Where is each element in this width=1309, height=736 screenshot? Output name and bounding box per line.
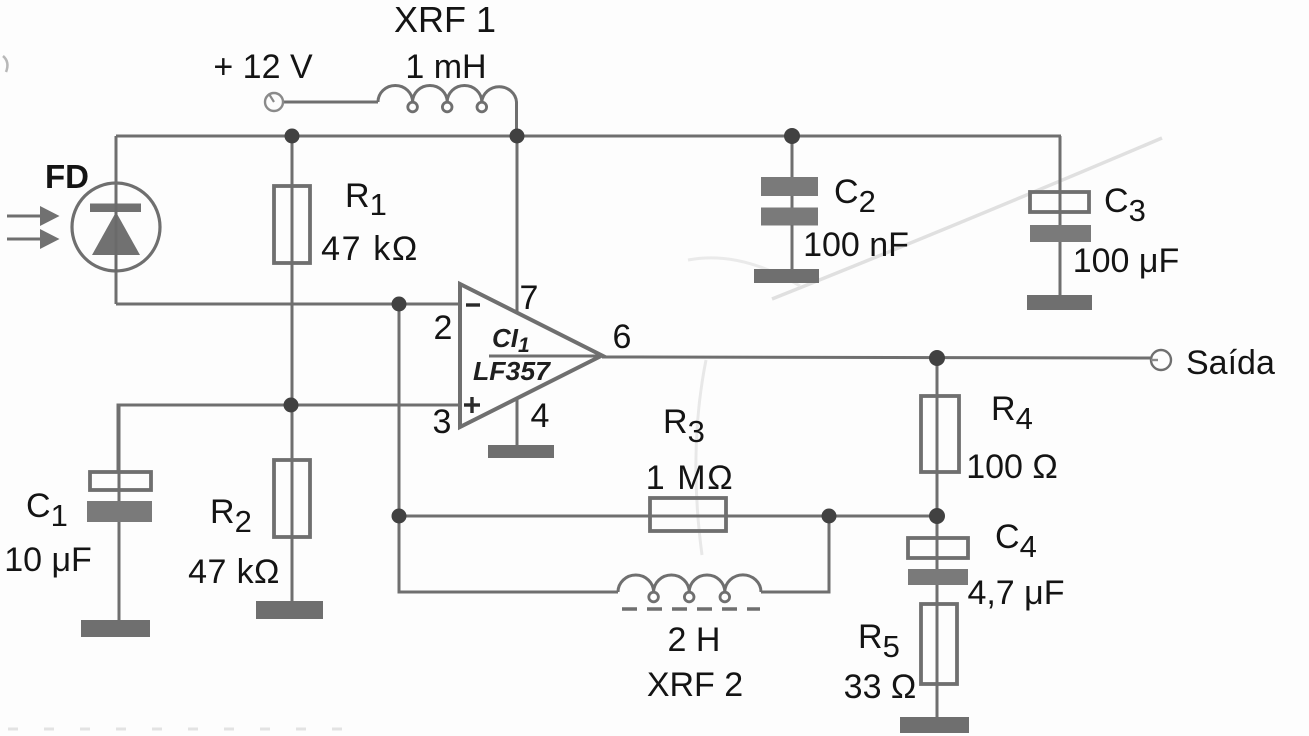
svg-text:100 μF: 100 μF [1073,242,1180,280]
capacitor C1 [87,472,152,522]
photodiode FD [72,183,160,272]
capacitor C4 [908,538,968,585]
svg-text:6: 6 [613,318,632,356]
svg-text:33 Ω: 33 Ω [844,668,917,706]
wire output [602,357,1151,358]
wire C2 branch [791,136,794,270]
svg-text:4,7 μF: 4,7 μF [967,574,1064,612]
ground C3 [1027,295,1092,310]
wire C1 to ground [118,405,121,622]
wire pin 4 [516,398,519,447]
wire non-inverting input [118,405,462,471]
wire R1-R2 chain vertical [291,136,294,601]
core dashed line XRF2 [622,607,760,610]
terminal Saída [1151,350,1171,370]
ground R5 [900,717,969,733]
ground C2 [754,269,819,283]
wire feedback [399,515,937,518]
node bus-C2 [784,128,800,144]
ground op-amp pin 4 [488,445,554,458]
op-amp U1 [460,284,602,427]
node output-R4 [929,350,945,366]
wire +12V to inductor [283,101,378,104]
wire left vertical through photodiode [115,136,118,304]
svg-text:Saída: Saída [1186,344,1275,382]
node bus-R1 [285,129,300,144]
resistor R3 [650,498,726,531]
wire R4 branch [936,358,939,719]
svg-text:2 H: 2 H [668,621,721,659]
resistor R4 [921,396,959,472]
svg-text:100 nF: 100 nF [803,226,909,264]
svg-text:+ 12 V: + 12 V [213,48,313,86]
wire inverting input [116,303,462,306]
wire inverting node to XRF2 [399,304,618,592]
svg-text:XRF 2: XRF 2 [647,666,743,704]
svg-text:1 MΩ: 1 MΩ [646,459,735,497]
capacitor C2 [761,177,818,270]
svg-text:XRF 1: XRF 1 [394,0,496,40]
node bus-pin7 [510,129,525,144]
terminal +12V [265,93,283,111]
wire top bus [116,135,1061,138]
resistor R5 [921,604,957,684]
ground R2 [256,601,323,619]
svg-text:10 μF: 10 μF [4,541,92,579]
resistor R2 [274,460,310,537]
node feedback-R4-C4 [929,508,945,524]
svg-text:7: 7 [520,279,539,317]
svg-text:3: 3 [433,403,452,441]
svg-text:4: 4 [531,397,550,435]
node non-inverting input [284,398,299,413]
ground C1 [81,620,150,637]
svg-text:100 Ω: 100 Ω [966,448,1058,486]
node feedback left [392,509,407,524]
node inverting input [392,297,407,312]
svg-text:FD: FD [45,158,89,195]
wire XRF2 right leg [761,516,829,592]
svg-text:LF357: LF357 [473,356,552,386]
svg-text:47 kΩ: 47 kΩ [188,553,280,591]
resistor R1 [274,186,310,263]
wire C3 branch [1059,136,1062,296]
light arrow 1 [7,206,60,226]
capacitor C3 [1030,192,1091,242]
light arrow 2 [7,229,60,249]
wire pin 7 supply [516,136,519,313]
svg-text:1 mH: 1 mH [405,48,486,86]
svg-text:47 kΩ: 47 kΩ [321,230,419,268]
svg-text:2: 2 [434,309,453,347]
inductor XRF1 [378,86,517,137]
node feedback-XRF2 [822,509,837,524]
inductor XRF2 [618,575,761,592]
